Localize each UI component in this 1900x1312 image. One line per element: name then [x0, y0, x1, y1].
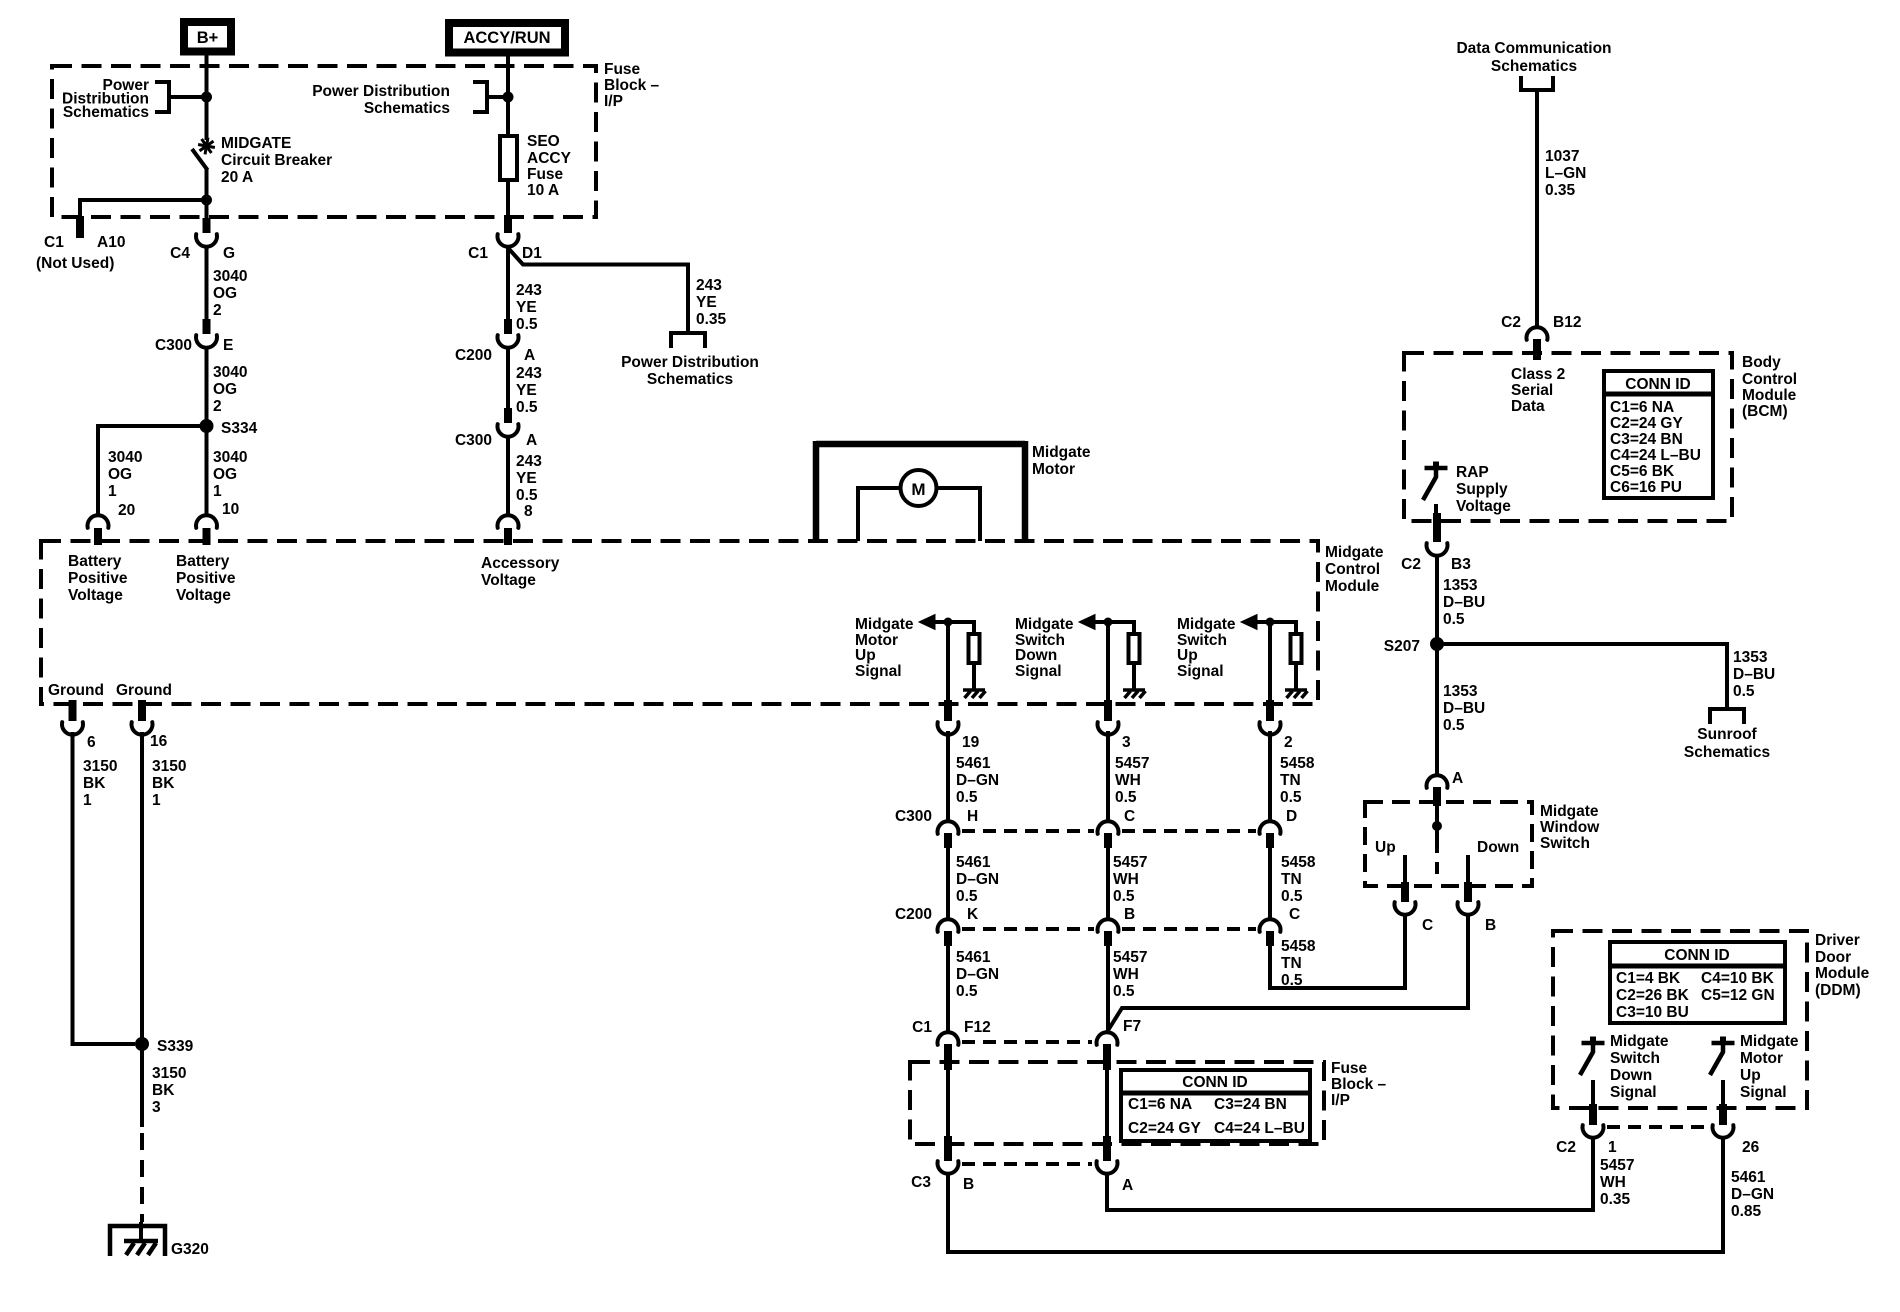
switch Up contact to terminal C	[1403, 855, 1407, 886]
svg-text:I/P: I/P	[604, 93, 623, 110]
svg-text:K: K	[967, 906, 979, 923]
svg-text:0.5: 0.5	[1281, 888, 1303, 905]
svg-text:(BCM): (BCM)	[1742, 403, 1788, 420]
switch Down contact to terminal B	[1466, 855, 1470, 886]
svg-text:CONN ID: CONN ID	[1664, 947, 1729, 964]
svg-text:C4=10 BK: C4=10 BK	[1701, 970, 1775, 987]
svg-text:B3: B3	[1451, 556, 1471, 573]
svg-text:S334: S334	[221, 420, 258, 437]
svg-text:Module: Module	[1815, 965, 1870, 982]
wire pin2 to C300 D	[1268, 731, 1272, 821]
svg-text:3150: 3150	[83, 758, 117, 775]
wire signal down to module edge	[1106, 622, 1110, 702]
wire C200 K to C1 F12	[946, 944, 950, 1032]
svg-text:0.5: 0.5	[1113, 983, 1135, 1000]
svg-text:Up: Up	[1177, 647, 1198, 664]
conn id table (fuse block)	[1121, 1070, 1310, 1141]
svg-text:C2: C2	[1501, 314, 1521, 331]
off-page bracket power distribution left	[155, 82, 169, 112]
svg-text:C300: C300	[895, 808, 932, 825]
node junction below breaker	[201, 195, 212, 206]
terminal 20 into midgate control module	[88, 515, 109, 528]
svg-text:0.5: 0.5	[516, 487, 538, 504]
wire C200 to C300	[506, 348, 510, 409]
switch common wire	[1435, 804, 1439, 825]
svg-text:H: H	[967, 808, 978, 825]
svg-text:RAP: RAP	[1456, 464, 1489, 481]
switch midgate motor up signal (DDM)	[1712, 1041, 1735, 1046]
svg-text:0.35: 0.35	[1600, 1191, 1631, 1208]
svg-text:Ground: Ground	[48, 682, 104, 699]
wire C300 H to C200 K	[946, 846, 950, 919]
svg-text:Midgate: Midgate	[1740, 1033, 1799, 1050]
connector row C2 dashed link (DDM)	[1607, 1125, 1709, 1129]
svg-text:CONN ID: CONN ID	[1182, 1074, 1247, 1091]
svg-text:Signal: Signal	[855, 663, 902, 680]
wire bracket to ACCY feed	[487, 95, 508, 99]
svg-text:B+: B+	[197, 29, 219, 47]
svg-text:I/P: I/P	[1331, 1092, 1350, 1109]
svg-text:243: 243	[696, 277, 722, 294]
svg-text:Voltage: Voltage	[1456, 498, 1511, 515]
splice S207	[1430, 637, 1444, 651]
svg-text:B12: B12	[1553, 314, 1581, 331]
svg-text:5458: 5458	[1281, 854, 1316, 871]
svg-text:B: B	[1124, 906, 1135, 923]
svg-text:Block –: Block –	[1331, 1076, 1387, 1093]
svg-text:A: A	[1452, 770, 1463, 787]
svg-text:Data: Data	[1511, 398, 1545, 415]
wire branch to not-used terminal	[80, 200, 207, 218]
svg-text:CONN ID: CONN ID	[1625, 376, 1690, 393]
connector C200 C	[1260, 919, 1281, 932]
connector C200 A in-line	[504, 319, 512, 334]
svg-text:C3=24 BN: C3=24 BN	[1214, 1096, 1287, 1113]
terminal 8 into midgate control module	[497, 515, 518, 528]
svg-text:C6=16 PU: C6=16 PU	[1610, 479, 1682, 496]
driver door module dashed box	[1553, 931, 1807, 1108]
terminal stub C1 A10 not used	[76, 216, 84, 238]
svg-text:0.5: 0.5	[956, 983, 978, 1000]
svg-text:3040: 3040	[213, 268, 247, 285]
wire breaker to junction	[205, 168, 209, 220]
svg-text:3150: 3150	[152, 758, 186, 775]
resistor pull-up	[1291, 634, 1302, 663]
ground chassis (internal)	[1123, 688, 1145, 692]
svg-text:0.5: 0.5	[1443, 611, 1465, 628]
svg-text:B: B	[1485, 917, 1496, 934]
wire B3 to splice S207	[1435, 556, 1439, 644]
connector C300 D	[1260, 821, 1281, 834]
svg-text:1: 1	[83, 792, 92, 809]
splice S334	[200, 419, 214, 433]
svg-text:BK: BK	[152, 1082, 175, 1099]
svg-text:C1=6 NA: C1=6 NA	[1128, 1096, 1192, 1113]
svg-text:D: D	[1286, 808, 1297, 825]
wire F7 through fuse block	[1105, 1068, 1109, 1138]
svg-text:0.5: 0.5	[1733, 683, 1755, 700]
wire S339 down solid	[140, 1044, 144, 1127]
svg-text:F12: F12	[964, 1019, 991, 1036]
svg-text:0.5: 0.5	[1281, 972, 1303, 989]
svg-text:Voltage: Voltage	[68, 587, 123, 604]
terminal C2 26 out of DDM	[1719, 1104, 1727, 1125]
svg-text:S207: S207	[1384, 638, 1420, 655]
terminal C2 1 out of DDM	[1589, 1104, 1597, 1125]
power feed box ACCY/RUN	[449, 23, 565, 53]
svg-text:YE: YE	[516, 470, 537, 487]
svg-text:Schematics: Schematics	[63, 104, 149, 121]
svg-text:Midgate: Midgate	[855, 616, 914, 633]
svg-text:Control: Control	[1742, 371, 1797, 388]
svg-text:10 A: 10 A	[527, 182, 559, 199]
node junction on signal wire	[1104, 618, 1113, 627]
fuse SEO ACCY 10A	[500, 136, 517, 180]
svg-text:C1: C1	[44, 234, 64, 251]
svg-text:10: 10	[222, 501, 239, 518]
svg-text:C5=12 GN: C5=12 GN	[1701, 987, 1775, 1004]
svg-text:D–GN: D–GN	[956, 871, 999, 888]
off-page bracket data communication	[1521, 76, 1553, 90]
wire resistor to ground	[1132, 665, 1136, 689]
svg-text:M: M	[911, 480, 925, 499]
svg-text:C2: C2	[1401, 556, 1421, 573]
motor M circle	[901, 470, 937, 506]
wire motor right lead	[937, 488, 981, 541]
svg-text:Signal: Signal	[1015, 663, 1062, 680]
svg-text:C4=24 L–BU: C4=24 L–BU	[1610, 447, 1701, 464]
connector row C200 dashed link	[962, 927, 1094, 931]
svg-text:(DDM): (DDM)	[1815, 982, 1861, 999]
svg-text:C1: C1	[468, 245, 488, 262]
svg-text:1: 1	[108, 483, 117, 500]
svg-text:C3=24 BN: C3=24 BN	[1610, 431, 1683, 448]
midgate control module dashed box	[41, 541, 1318, 704]
node junction on ACCY feed	[503, 92, 514, 103]
wire S207 branch to sunroof	[1437, 644, 1727, 709]
svg-text:Signal: Signal	[1610, 1084, 1657, 1101]
svg-text:243: 243	[516, 453, 542, 470]
svg-text:MIDGATE: MIDGATE	[221, 135, 291, 152]
svg-text:C: C	[1289, 906, 1300, 923]
svg-text:5457: 5457	[1113, 949, 1147, 966]
svg-text:C200: C200	[455, 347, 492, 364]
svg-text:Body: Body	[1742, 354, 1781, 371]
wire bracket to B+ feed	[169, 95, 207, 99]
svg-text:5457: 5457	[1600, 1157, 1634, 1174]
wire resistor to ground	[972, 665, 976, 689]
wire S207 to window switch A	[1435, 644, 1439, 775]
off-page bracket power distribution right	[473, 82, 487, 112]
svg-text:C1: C1	[912, 1019, 932, 1036]
svg-text:Down: Down	[1610, 1067, 1652, 1084]
svg-text:TN: TN	[1281, 871, 1302, 888]
switch RAP supply voltage	[1425, 466, 1448, 471]
wire branch D1 to power distribution off-page	[509, 249, 688, 333]
svg-text:Driver: Driver	[1815, 932, 1860, 949]
svg-text:L–GN: L–GN	[1545, 165, 1586, 182]
svg-text:Supply: Supply	[1456, 481, 1508, 498]
midgate motor box	[816, 441, 1025, 448]
svg-text:0.5: 0.5	[1280, 789, 1302, 806]
svg-text:Midgate: Midgate	[1610, 1033, 1669, 1050]
svg-text:S339: S339	[157, 1038, 194, 1055]
svg-text:C1=4 BK: C1=4 BK	[1616, 970, 1681, 987]
svg-text:C200: C200	[895, 906, 932, 923]
node switch pivot	[1432, 821, 1442, 831]
svg-text:C2=24 GY: C2=24 GY	[1610, 415, 1683, 432]
svg-text:Schematics: Schematics	[1491, 58, 1577, 75]
wire splice branch left	[98, 426, 207, 516]
svg-text:Serial: Serial	[1511, 382, 1553, 399]
wire dashed to ground G320	[140, 1133, 144, 1222]
svg-text:Motor: Motor	[1740, 1050, 1783, 1067]
connector C300 C	[1098, 821, 1119, 834]
svg-text:Switch: Switch	[1540, 835, 1590, 852]
svg-text:5457: 5457	[1115, 755, 1149, 772]
svg-text:C2=24 GY: C2=24 GY	[1128, 1120, 1201, 1137]
svg-text:3: 3	[1122, 734, 1131, 751]
svg-text:Switch: Switch	[1610, 1050, 1660, 1067]
svg-text:BK: BK	[83, 775, 106, 792]
wire corner to resistor	[1294, 620, 1298, 632]
svg-text:A: A	[524, 347, 535, 364]
svg-text:WH: WH	[1115, 772, 1141, 789]
svg-text:ACCY: ACCY	[527, 150, 572, 167]
svg-text:0.5: 0.5	[516, 399, 538, 416]
svg-text:Circuit Breaker: Circuit Breaker	[221, 152, 332, 169]
wire ACCY/RUN box to fuse	[506, 51, 510, 136]
connector C200 B	[1098, 919, 1119, 932]
wire C300 D to C200 C	[1268, 846, 1272, 919]
svg-text:A: A	[1122, 1177, 1133, 1194]
svg-text:1: 1	[213, 483, 222, 500]
fuse block - I/P dashed box (top left)	[52, 66, 596, 217]
svg-text:243: 243	[516, 282, 542, 299]
svg-text:5458: 5458	[1280, 755, 1315, 772]
svg-text:Battery: Battery	[176, 553, 230, 570]
svg-text:0.5: 0.5	[956, 789, 978, 806]
svg-text:WH: WH	[1113, 871, 1139, 888]
svg-text:Up: Up	[1740, 1067, 1761, 1084]
svg-text:Power Distribution: Power Distribution	[621, 354, 759, 371]
svg-text:Up: Up	[1375, 839, 1396, 856]
connector C300 E in-line	[203, 319, 211, 334]
svg-text:5461: 5461	[956, 854, 991, 871]
wire splice down	[205, 426, 209, 516]
svg-text:Midgate: Midgate	[1177, 616, 1236, 633]
svg-text:1353: 1353	[1443, 683, 1478, 700]
svg-text:5461: 5461	[1731, 1169, 1766, 1186]
circuit breaker MIDGATE 20A	[198, 138, 215, 155]
connector C1 D1 in-line	[504, 218, 512, 233]
connector C1 F12	[938, 1032, 959, 1045]
ground G320 symbol	[139, 1222, 143, 1243]
connector C300 A in-line	[504, 408, 512, 423]
svg-text:G: G	[223, 245, 235, 262]
svg-text:F7: F7	[1123, 1018, 1141, 1035]
svg-text:1: 1	[152, 792, 161, 809]
svg-text:3: 3	[152, 1099, 161, 1116]
wire corner to resistor	[972, 620, 976, 632]
svg-text:2: 2	[213, 302, 222, 319]
svg-text:Fuse: Fuse	[604, 61, 641, 78]
svg-text:D–GN: D–GN	[956, 772, 999, 789]
ground chassis (internal)	[1285, 688, 1307, 692]
wire ground pin6 down	[73, 732, 136, 1044]
svg-text:D–GN: D–GN	[956, 966, 999, 983]
terminal 19 out	[944, 700, 952, 721]
off-page bracket power distribution (branch)	[671, 333, 705, 348]
connector row C1 dashed link	[962, 1040, 1092, 1044]
connector C2 B12 into BCM	[1527, 327, 1548, 340]
svg-text:Power Distribution: Power Distribution	[312, 83, 450, 100]
svg-text:Module: Module	[1742, 387, 1797, 404]
node junction on signal wire	[1266, 618, 1275, 627]
svg-text:Positive: Positive	[176, 570, 236, 587]
connector row C300 dashed link	[962, 829, 1094, 833]
svg-text:C300: C300	[455, 432, 492, 449]
svg-text:Battery: Battery	[68, 553, 122, 570]
connector A into window switch	[1427, 775, 1448, 788]
resistor pull-up	[1129, 634, 1140, 663]
wire B to DDM 26	[948, 1137, 1723, 1252]
svg-text:8: 8	[524, 503, 533, 520]
connector row C3 dashed link	[962, 1162, 1092, 1166]
svg-text:1353: 1353	[1733, 649, 1768, 666]
svg-text:0.5: 0.5	[1443, 717, 1465, 734]
svg-text:YE: YE	[516, 382, 537, 399]
svg-text:3040: 3040	[108, 449, 142, 466]
wire switch to DDM edge (right)	[1721, 1080, 1725, 1108]
wire A to DDM 1	[1107, 1137, 1593, 1210]
connector C4 G in-line	[203, 218, 211, 233]
svg-text:Positive: Positive	[68, 570, 128, 587]
svg-text:D–BU: D–BU	[1733, 666, 1775, 683]
splice S339	[135, 1037, 149, 1051]
svg-text:B: B	[963, 1176, 974, 1193]
terminal 10 into midgate control module	[196, 515, 217, 528]
svg-text:5458: 5458	[1281, 938, 1316, 955]
svg-text:Window: Window	[1540, 819, 1600, 836]
svg-text:C3=10 BU: C3=10 BU	[1616, 1004, 1689, 1021]
svg-text:0.5: 0.5	[956, 888, 978, 905]
svg-text:Midgate: Midgate	[1015, 616, 1074, 633]
wire C300 C to C200 B	[1106, 846, 1110, 919]
switch midgate switch down signal (DDM)	[1582, 1041, 1605, 1046]
wire C4 to C300	[205, 247, 209, 320]
connector C200 K	[938, 919, 959, 932]
svg-text:Class 2: Class 2	[1511, 366, 1565, 383]
svg-text:0.5: 0.5	[1115, 789, 1137, 806]
svg-text:Signal: Signal	[1740, 1084, 1787, 1101]
svg-text:C300: C300	[155, 337, 192, 354]
svg-text:0.35: 0.35	[696, 311, 727, 328]
svg-text:0.5: 0.5	[516, 316, 538, 333]
terminal 2 out	[1266, 700, 1274, 721]
svg-text:0.85: 0.85	[1731, 1203, 1762, 1220]
svg-text:WH: WH	[1113, 966, 1139, 983]
terminal 16 ground out	[138, 700, 146, 721]
svg-text:0.5: 0.5	[1113, 888, 1135, 905]
svg-text:Voltage: Voltage	[481, 572, 536, 589]
svg-text:A: A	[526, 432, 537, 449]
svg-text:C1=6 NA: C1=6 NA	[1610, 399, 1674, 416]
svg-text:0.35: 0.35	[1545, 182, 1576, 199]
svg-text:Motor: Motor	[1032, 461, 1075, 478]
body control module dashed box	[1404, 353, 1732, 521]
svg-text:D1: D1	[522, 245, 542, 262]
svg-text:OG: OG	[108, 466, 132, 483]
switch wiper	[1435, 826, 1439, 853]
svg-text:YE: YE	[696, 294, 717, 311]
ground chassis (internal)	[963, 688, 985, 692]
svg-text:WH: WH	[1600, 1174, 1626, 1191]
svg-text:Fuse: Fuse	[527, 166, 564, 183]
wire B+ feed down to breaker	[205, 66, 209, 140]
svg-text:20 A: 20 A	[221, 169, 253, 186]
wire F12 through fuse block	[946, 1068, 950, 1138]
wire RAP to BCM edge	[1434, 504, 1438, 517]
wire C300 to terminal 8	[506, 437, 510, 516]
node junction on signal wire	[944, 618, 953, 627]
svg-text:C: C	[1124, 808, 1135, 825]
svg-text:19: 19	[962, 734, 980, 751]
svg-text:D–BU: D–BU	[1443, 700, 1485, 717]
svg-text:TN: TN	[1281, 955, 1302, 972]
svg-text:20: 20	[118, 502, 135, 519]
terminal C3 A out of fuse block	[1103, 1136, 1111, 1161]
svg-text:E: E	[223, 337, 233, 354]
wire C200 C to window switch C	[1270, 914, 1405, 988]
svg-text:Schematics: Schematics	[364, 100, 450, 117]
svg-text:1: 1	[1608, 1139, 1617, 1156]
wire data comm to BCM B12	[1535, 90, 1539, 327]
wire ground pin16 down	[140, 732, 144, 1044]
fuse block - I/P dashed box (bottom)	[910, 1062, 1324, 1144]
svg-text:C2=26 BK: C2=26 BK	[1616, 987, 1690, 1004]
svg-text:Sunroof: Sunroof	[1697, 726, 1757, 743]
svg-text:BK: BK	[152, 775, 175, 792]
svg-text:C4: C4	[170, 245, 190, 262]
svg-text:3040: 3040	[213, 449, 247, 466]
conn id table (BCM)	[1604, 371, 1713, 498]
signal arrow Switch Down	[1079, 615, 1095, 630]
svg-text:Schematics: Schematics	[647, 371, 733, 388]
wire corner to resistor	[1132, 620, 1136, 632]
svg-text:ACCY/RUN: ACCY/RUN	[463, 29, 550, 47]
svg-text:Control: Control	[1325, 561, 1380, 578]
svg-text:D–BU: D–BU	[1443, 594, 1485, 611]
svg-text:C4=24 L–BU: C4=24 L–BU	[1214, 1120, 1305, 1137]
svg-text:Schematics: Schematics	[1684, 744, 1770, 761]
svg-text:Up: Up	[855, 647, 876, 664]
svg-text:A10: A10	[97, 234, 125, 251]
wire motor left lead	[858, 488, 901, 541]
svg-text:Accessory: Accessory	[481, 555, 560, 572]
svg-text:5461: 5461	[956, 949, 991, 966]
wire signal down to module edge	[946, 622, 950, 702]
svg-text:Module: Module	[1325, 578, 1380, 595]
wire pin19 to C300 H	[946, 731, 950, 821]
svg-text:SEO: SEO	[527, 133, 560, 150]
node junction on B+ feed	[201, 92, 212, 103]
svg-text:C2: C2	[1556, 1139, 1576, 1156]
svg-text:6: 6	[87, 734, 96, 751]
wire C200 B to C1 F7	[1106, 944, 1110, 1032]
svg-text:(Not Used): (Not Used)	[36, 255, 114, 272]
svg-text:Ground: Ground	[116, 682, 172, 699]
